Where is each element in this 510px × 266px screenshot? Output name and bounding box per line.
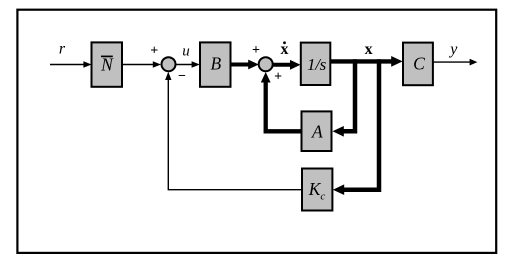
svg-text:N: N bbox=[100, 55, 114, 75]
summer 1 (summing junction) bbox=[162, 57, 176, 71]
wire C output arrow bbox=[433, 59, 478, 66]
wire 1/s to C : state x line (thick) bbox=[330, 56, 402, 67]
wire x tap down to A (thick) bbox=[333, 59, 356, 136]
block C bbox=[403, 43, 433, 86]
node xdot label bbox=[281, 41, 289, 58]
summer 2 (summing junction) bbox=[259, 57, 273, 71]
svg-text:1/s: 1/s bbox=[307, 55, 327, 74]
block 1/s (integrator) bbox=[301, 43, 331, 85]
wire x tap down to Kc (thick) bbox=[333, 59, 379, 195]
block Kc bbox=[302, 169, 332, 211]
block Nbar (reference gain) bbox=[92, 42, 123, 86]
svg-text:+: + bbox=[274, 70, 282, 85]
svg-text:y: y bbox=[448, 41, 458, 58]
block B bbox=[200, 42, 231, 86]
svg-text:C: C bbox=[413, 53, 425, 73]
svg-text:u: u bbox=[182, 44, 190, 60]
wire r input arrow bbox=[50, 61, 92, 67]
svg-text:A: A bbox=[311, 122, 323, 142]
wire Nbar to summer 1 bbox=[122, 61, 161, 67]
block A bbox=[302, 111, 332, 151]
wire A feedback to summer 2 (thick) bbox=[261, 72, 302, 131]
svg-text:+: + bbox=[150, 44, 158, 59]
wire summer 1 to B bbox=[176, 61, 200, 67]
wire B to summer 2 (thick) bbox=[231, 60, 259, 70]
svg-text:x: x bbox=[365, 41, 373, 58]
svg-text:+: + bbox=[252, 43, 260, 58]
wire summer 2 to 1/s (thick) bbox=[273, 60, 301, 70]
svg-text:r: r bbox=[59, 41, 66, 58]
wire Kc feedback to summer 1 bbox=[165, 72, 302, 190]
svg-text:−: − bbox=[178, 69, 186, 84]
svg-text:B: B bbox=[210, 53, 221, 73]
